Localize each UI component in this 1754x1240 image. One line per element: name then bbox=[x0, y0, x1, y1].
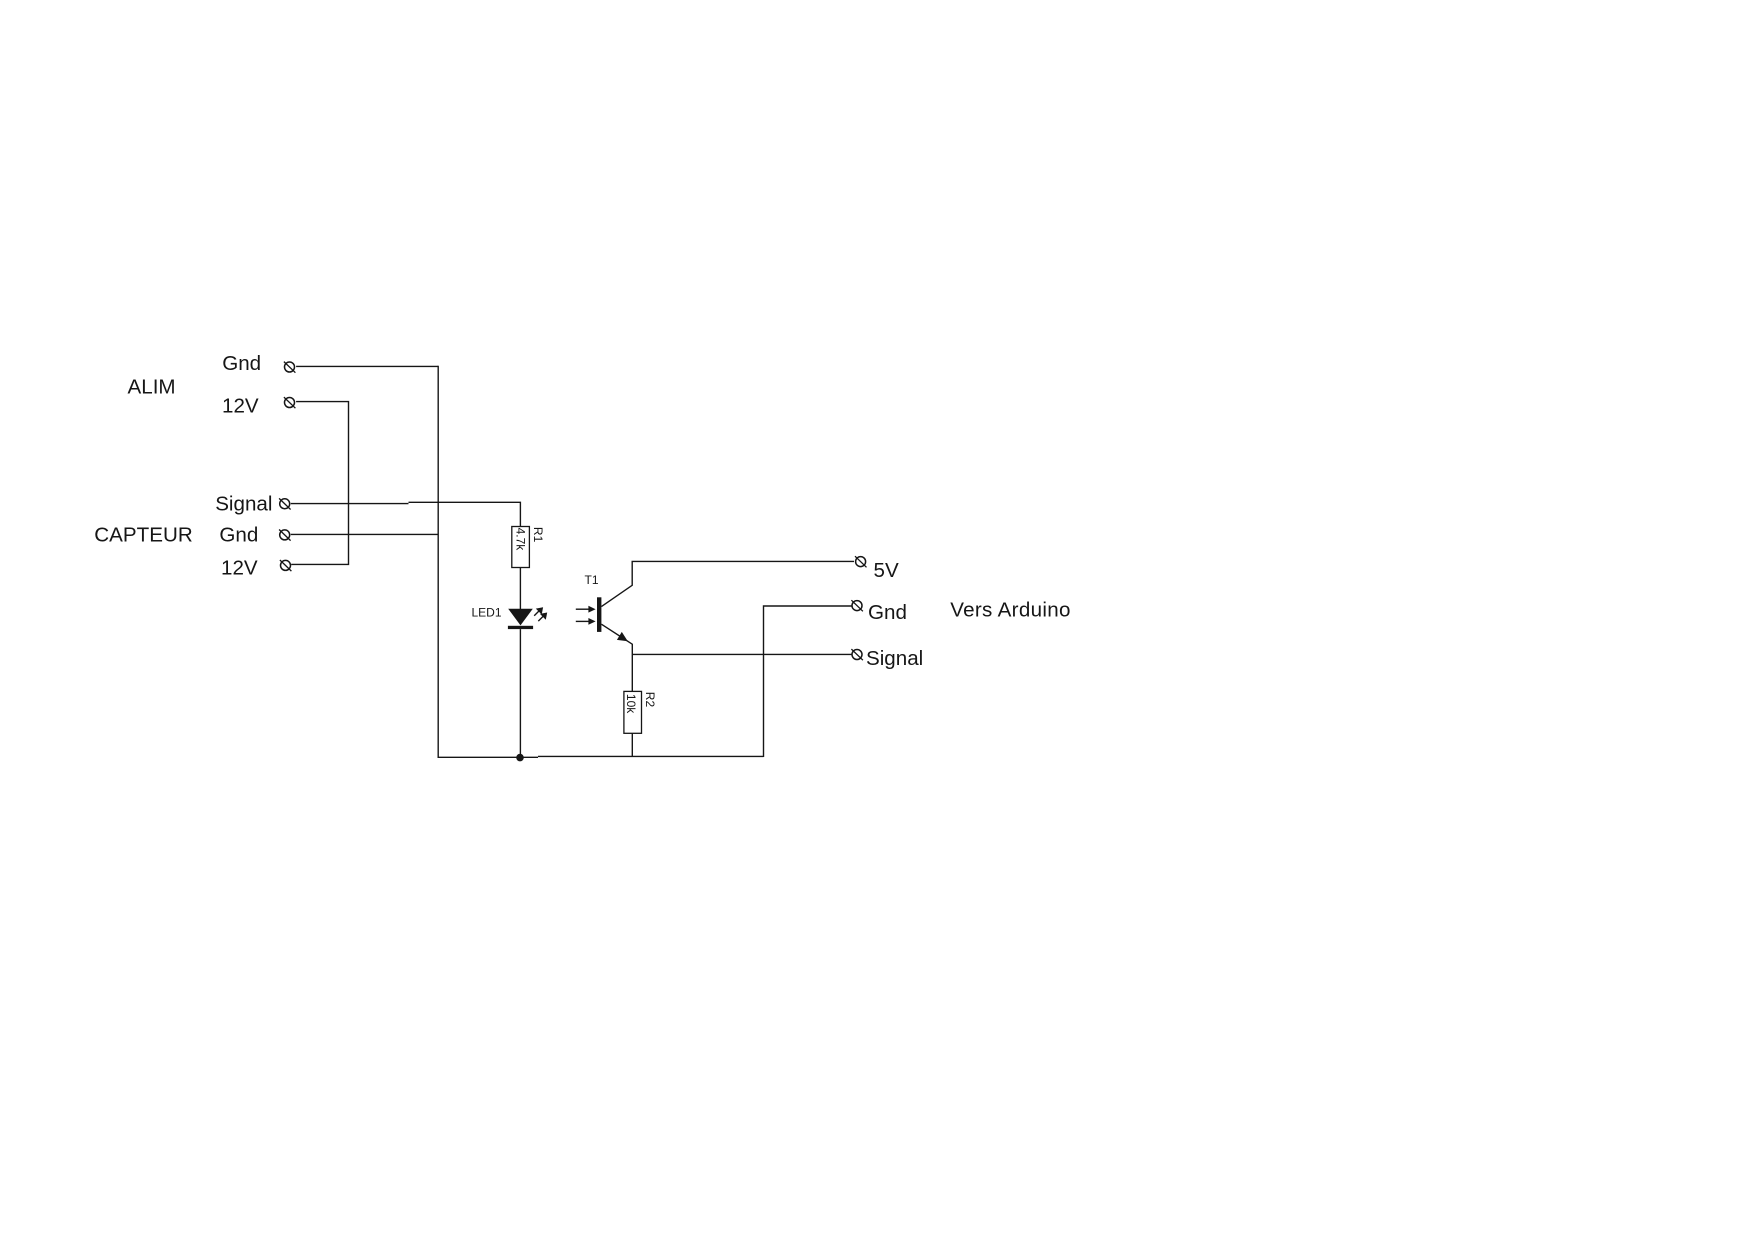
terminal ALIM 12V bbox=[284, 397, 296, 408]
svg-text:T1: T1 bbox=[585, 573, 599, 587]
wire CAPTEUR Signal to resistor R1 top bbox=[291, 503, 409, 505]
junction dot ground rail / LED branch bbox=[516, 754, 524, 762]
svg-text:CAPTEUR: CAPTEUR bbox=[94, 524, 192, 547]
svg-text:ALIM: ALIM bbox=[128, 376, 176, 399]
wire ALIM 12V to CAPTEUR 12V bbox=[291, 402, 348, 565]
wire ground rail up to Gnd terminal bbox=[764, 606, 852, 757]
svg-text:R2: R2 bbox=[643, 692, 657, 708]
wire R2 bottom to ground rail bbox=[631, 733, 633, 757]
transistor T1 photo arrow lower bbox=[576, 618, 596, 625]
svg-text:Signal: Signal bbox=[866, 647, 923, 670]
resistor R2 bbox=[624, 691, 657, 733]
svg-text:Gnd: Gnd bbox=[222, 352, 261, 375]
svg-text:Vers Arduino: Vers Arduino bbox=[950, 599, 1071, 622]
transistor T1 phototransistor base plate bbox=[597, 597, 601, 632]
wire emitter node to Signal terminal bbox=[632, 653, 851, 655]
wire ALIM Gnd vertical down to ground rail bbox=[437, 366, 439, 758]
transistor T1 photo arrow upper bbox=[576, 606, 596, 613]
wire LED1 cathode down to ground rail bbox=[519, 629, 521, 757]
terminal CAPTEUR 12V bbox=[280, 560, 292, 571]
svg-text:R1: R1 bbox=[531, 527, 545, 543]
resistor R1 bbox=[512, 527, 545, 568]
svg-text:Signal: Signal bbox=[215, 492, 272, 515]
wire CAPTEUR Gnd to vertical gnd line bbox=[291, 533, 438, 535]
svg-text:Gnd: Gnd bbox=[868, 601, 907, 624]
svg-text:5V: 5V bbox=[874, 559, 899, 582]
svg-text:12V: 12V bbox=[222, 395, 259, 418]
terminal Arduino 5V bbox=[855, 556, 867, 567]
terminal ALIM Gnd bbox=[284, 362, 296, 373]
LED LED1 bbox=[472, 606, 548, 630]
svg-text:LED1: LED1 bbox=[472, 606, 502, 620]
terminal Arduino Signal bbox=[851, 649, 863, 660]
terminal Arduino Gnd bbox=[851, 600, 863, 611]
svg-text:10k: 10k bbox=[624, 694, 638, 714]
wire ALIM Gnd horizontal bbox=[296, 365, 438, 367]
wire R1 bottom to LED1 anode bbox=[519, 568, 521, 610]
transistor T1 emitter arrowhead bbox=[617, 632, 628, 641]
terminal CAPTEUR Gnd bbox=[279, 530, 291, 541]
wire T1 emitter down to R2 bbox=[601, 624, 632, 691]
svg-text:Gnd: Gnd bbox=[219, 523, 258, 546]
svg-text:4.7k: 4.7k bbox=[513, 528, 527, 552]
svg-text:12V: 12V bbox=[221, 557, 258, 580]
wire ground rail bottom bbox=[438, 756, 539, 758]
terminal CAPTEUR Signal bbox=[279, 498, 291, 509]
wire T1 collector to 5V terminal bbox=[601, 561, 854, 606]
